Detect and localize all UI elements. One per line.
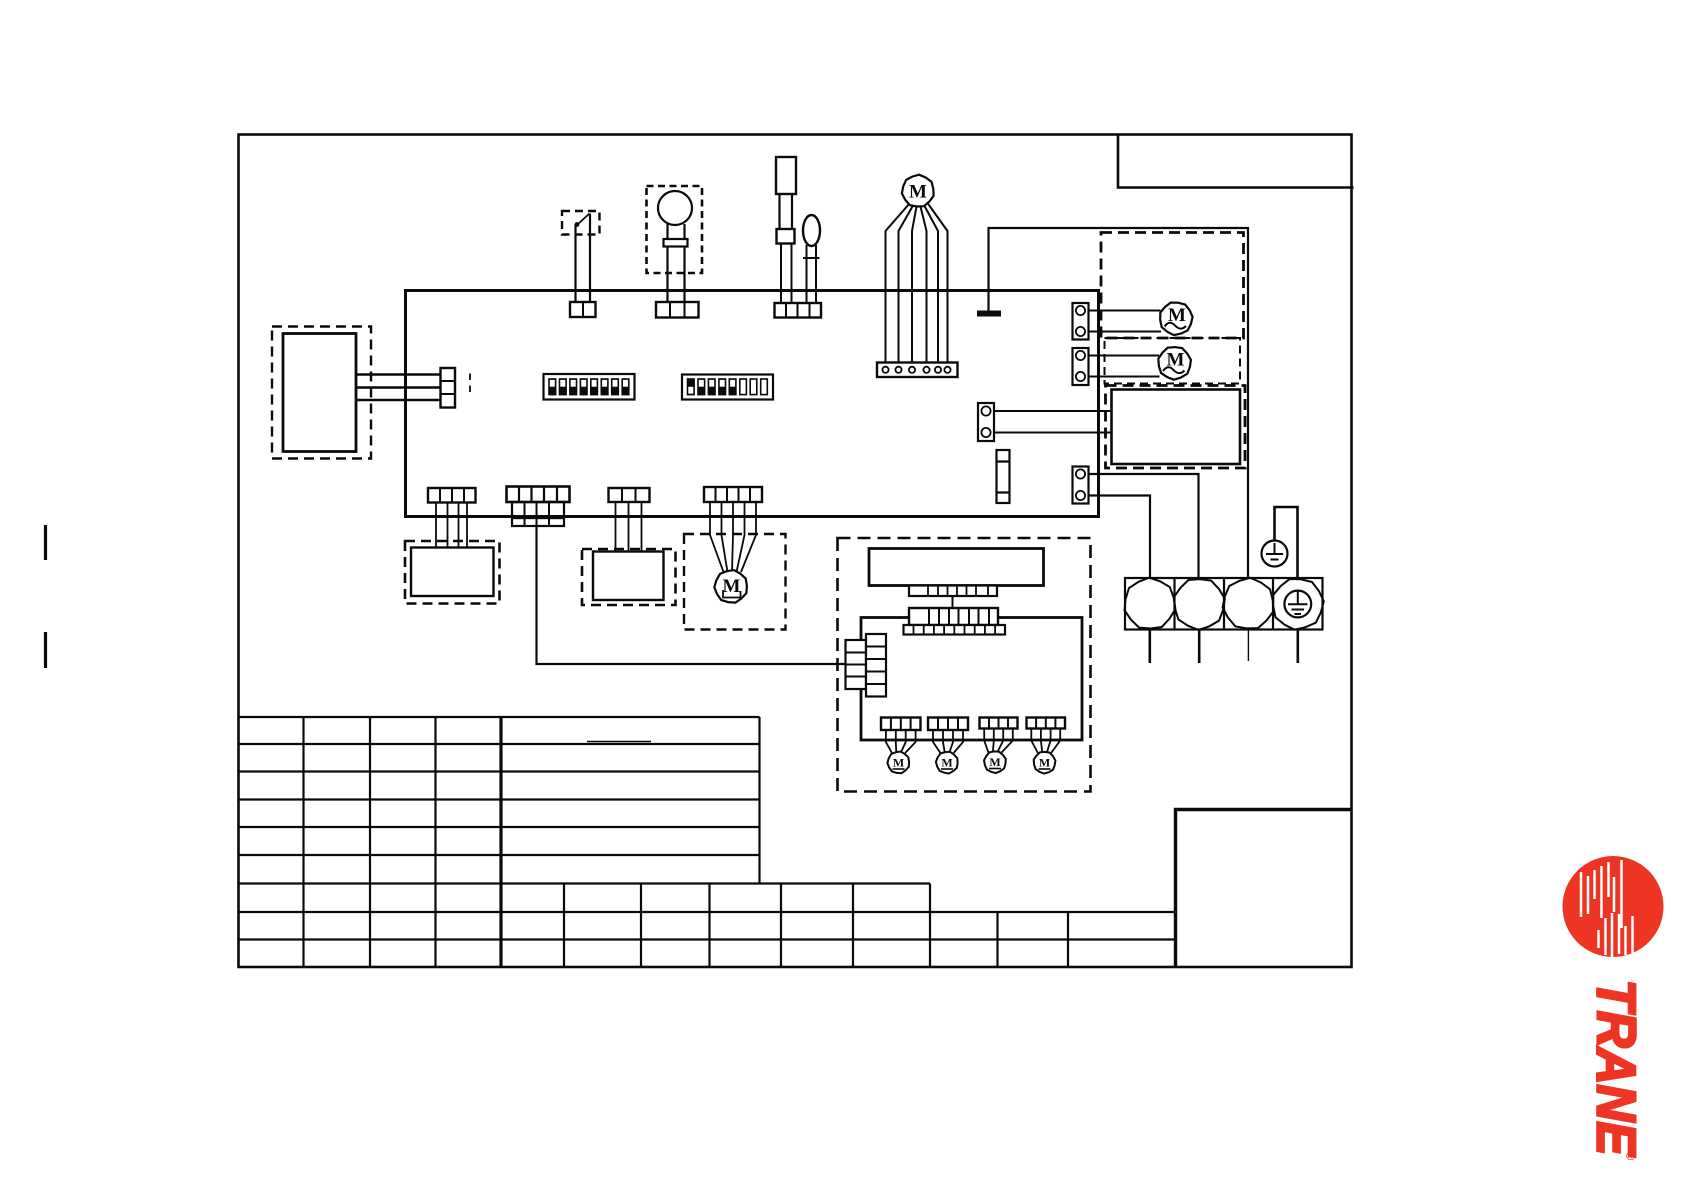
wire J9 to motor M2: [1089, 311, 1162, 332]
border frame: [239, 135, 1352, 968]
svg-text:M: M: [989, 755, 1000, 769]
connector J15: [928, 718, 968, 731]
terminal block TB1: [1125, 578, 1323, 630]
switch contact: [575, 214, 590, 227]
main control board U1: [406, 291, 1099, 517]
connector J13: [704, 487, 762, 502]
wire J5 to valve box: [436, 503, 467, 549]
connector J12: [1073, 467, 1089, 504]
motor M4 dashed box: [684, 534, 786, 630]
motor M4 indoor fan: [714, 570, 747, 603]
relay dashed box: [582, 549, 676, 605]
fan section dashed box 2: [1105, 338, 1241, 384]
motor M8: [1034, 752, 1056, 774]
wire K1 to TB1 phase 3: [989, 228, 1249, 578]
auxiliary board: [861, 618, 1082, 741]
sensor RT2 bulb: [803, 215, 820, 246]
tab K1: [977, 311, 1001, 317]
sensor RT1 stem: [780, 194, 793, 229]
TB1 lug 3: [1223, 578, 1274, 629]
connector J7: [609, 488, 650, 502]
trim tick upper: [44, 525, 47, 560]
fan section dashed box: [1101, 233, 1244, 339]
svg-text:M: M: [941, 756, 952, 770]
DIP switch SW2: [682, 375, 773, 400]
display unit dashed enclosure: [272, 327, 371, 459]
TB1 lug 1: [1125, 578, 1176, 629]
svg-text:®: ®: [1624, 1152, 1638, 1161]
compressor contactor box: [1112, 390, 1241, 465]
switch SW3 dashed box: [562, 211, 600, 235]
relay box: [593, 552, 664, 601]
svg-text:M: M: [909, 182, 927, 203]
motor M1 outdoor fan: [902, 175, 934, 207]
sensor B1 bulb: [658, 191, 692, 225]
motor M2: [1160, 303, 1192, 336]
compressor section dashed box: [1106, 386, 1246, 469]
wire display to board: [356, 375, 441, 401]
transformer pin header: [909, 586, 997, 597]
TB1 ground lug symbol: [1284, 591, 1311, 618]
ground chassis symbol: [1262, 541, 1288, 567]
svg-text:TRANE: TRANE: [1586, 980, 1648, 1158]
wire J7 to relay box: [616, 502, 642, 552]
connector J17: [1027, 718, 1066, 729]
auxiliary assembly dashed box: [838, 538, 1091, 792]
wire J11 to contactor: [994, 411, 1112, 433]
wires M1 to board: [886, 203, 948, 363]
svg-text:M: M: [1039, 756, 1050, 770]
title box top right: [1118, 134, 1354, 188]
wire J6 to auxiliary board: [537, 526, 846, 664]
sensor RT1 collar: [777, 229, 795, 244]
connector J14: [881, 718, 921, 731]
valve dashed box: [405, 541, 500, 604]
auxiliary board edge connector: [846, 640, 867, 689]
wire J10 to motor M3: [1089, 356, 1160, 377]
DIP switch SW1: [544, 374, 635, 400]
sensor B1 dashed box: [647, 186, 703, 273]
display unit: [283, 334, 356, 452]
sensor B1 collar: [664, 239, 688, 247]
revision table: [238, 717, 1175, 966]
TB1 field wires: [1150, 630, 1298, 664]
wire RT1 to board: [781, 244, 792, 304]
wire J17 to motor M8: [1031, 729, 1060, 754]
connector J16: [980, 718, 1018, 729]
dash fragments: [469, 374, 471, 393]
table underline segment: [587, 741, 651, 743]
connector J3: [656, 302, 699, 318]
terminal screws: [877, 363, 958, 378]
auxiliary board header: [909, 608, 998, 625]
wire J14 to motor M5: [886, 730, 916, 753]
fuse F1: [997, 450, 1010, 503]
motor M5: [887, 752, 909, 774]
sensor RT1 body: [776, 157, 796, 194]
motor M7: [984, 751, 1006, 773]
trim tick lower: [44, 632, 47, 668]
motor M6: [936, 752, 958, 774]
wire T1 to auxiliary board: [952, 596, 954, 608]
connector J9: [1073, 303, 1089, 340]
wire J15 to motor M6: [933, 730, 963, 753]
wire J16 to motor M7: [984, 729, 1013, 753]
connector J4: [775, 303, 822, 318]
connector J11: [978, 403, 994, 441]
wire switch to board: [576, 214, 591, 303]
wire J12 pin1 to TB1: [1089, 474, 1199, 578]
wire ground jog: [1275, 507, 1298, 578]
TB1 lug 2: [1174, 579, 1225, 630]
wire RT2 to board: [807, 245, 817, 303]
connector J8 display: [441, 368, 456, 408]
TB1 lug 4: [1273, 579, 1324, 630]
reversing valve box: [411, 548, 494, 597]
connector J6 lower block: [512, 502, 564, 526]
svg-text:M: M: [893, 756, 904, 770]
connector J6: [507, 487, 570, 503]
sensor B1 stem: [668, 224, 685, 239]
motor M3: [1158, 347, 1191, 380]
RT2 tie bar: [803, 257, 820, 259]
title box bottom right: [1176, 810, 1352, 967]
wire J13 to motor M4: [710, 502, 756, 572]
wire J12 pin2 to TB1: [1089, 496, 1151, 579]
connector J5: [428, 488, 476, 503]
wire sensor B1 to board: [668, 247, 685, 303]
svg-text:M: M: [723, 576, 741, 597]
Trane logo mark: [1563, 856, 1664, 957]
connector J2: [570, 302, 596, 317]
connector J10: [1073, 348, 1089, 385]
transformer T1: [869, 549, 1044, 586]
